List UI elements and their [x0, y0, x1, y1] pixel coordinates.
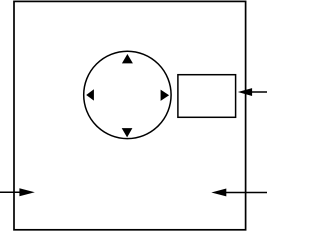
up triangle	[122, 54, 133, 63]
right input arrowhead	[238, 88, 252, 96]
dial circle	[84, 51, 171, 138]
small box	[178, 75, 236, 118]
bottom-left input arrow shaft	[0, 191, 21, 193]
right triangle	[161, 90, 170, 101]
bottom-left input arrowhead	[19, 188, 34, 196]
right input arrow shaft	[250, 91, 267, 93]
outer enclosure box	[14, 1, 246, 229]
bottom-right input arrowhead	[211, 189, 226, 197]
down triangle	[122, 128, 133, 137]
left triangle	[86, 89, 94, 100]
bottom-right input arrow shaft	[225, 192, 267, 194]
